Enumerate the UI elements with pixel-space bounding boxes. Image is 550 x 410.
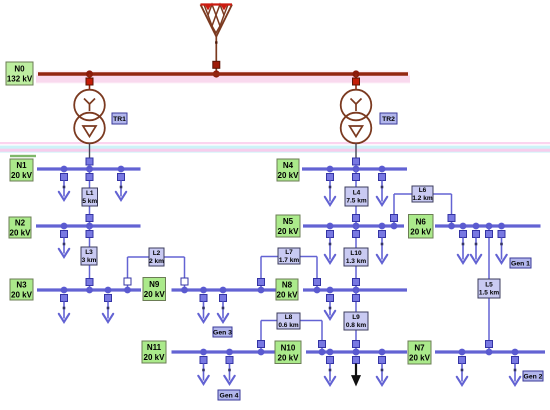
svg-text:N3: N3 [16, 281, 27, 290]
svg-text:132 kV: 132 kV [7, 75, 33, 84]
svg-text:20 kV: 20 kV [278, 227, 300, 236]
svg-text:1.2 km: 1.2 km [412, 195, 432, 202]
svg-text:1.5 km: 1.5 km [479, 290, 499, 297]
svg-text:5 km: 5 km [82, 198, 97, 205]
svg-text:0.6 km: 0.6 km [278, 322, 298, 329]
svg-text:L2: L2 [153, 250, 161, 257]
svg-text:L7: L7 [285, 249, 293, 256]
svg-text:N6: N6 [416, 217, 427, 226]
svg-text:20 kV: 20 kV [144, 353, 166, 362]
svg-text:Gen 2: Gen 2 [524, 374, 543, 381]
svg-text:20 kV: 20 kV [410, 227, 432, 236]
svg-text:L6: L6 [419, 187, 427, 194]
svg-text:Gen 1: Gen 1 [511, 261, 530, 268]
svg-text:20 kV: 20 kV [144, 290, 166, 299]
svg-text:N2: N2 [15, 219, 26, 228]
svg-text:N1: N1 [16, 161, 27, 170]
svg-text:Gen 4: Gen 4 [220, 393, 239, 400]
svg-text:TR2: TR2 [382, 116, 395, 123]
svg-text:L10: L10 [350, 250, 362, 257]
svg-text:L5: L5 [485, 282, 493, 289]
svg-text:L1: L1 [86, 190, 94, 197]
svg-text:L8: L8 [285, 314, 293, 321]
svg-text:20 kV: 20 kV [277, 291, 299, 300]
svg-text:N10: N10 [281, 343, 296, 352]
svg-text:Gen 3: Gen 3 [213, 330, 232, 337]
svg-text:20 kV: 20 kV [10, 229, 32, 238]
svg-text:0.8 km: 0.8 km [346, 322, 366, 329]
svg-text:L9: L9 [352, 314, 360, 321]
svg-text:20 kV: 20 kV [409, 354, 431, 363]
svg-text:N4: N4 [283, 161, 294, 170]
svg-text:N11: N11 [147, 343, 162, 352]
svg-text:N7: N7 [414, 344, 425, 353]
svg-text:TR1: TR1 [113, 116, 126, 123]
svg-text:1.3 km: 1.3 km [346, 258, 366, 265]
svg-text:3 km: 3 km [82, 257, 97, 264]
svg-text:20 kV: 20 kV [11, 291, 33, 300]
svg-text:N9: N9 [149, 280, 160, 289]
svg-text:7.5 km: 7.5 km [346, 198, 366, 205]
svg-text:N5: N5 [283, 217, 294, 226]
svg-text:N8: N8 [282, 281, 293, 290]
svg-text:N0: N0 [14, 65, 25, 74]
svg-text:20 kV: 20 kV [11, 171, 33, 180]
svg-text:20 kV: 20 kV [278, 353, 300, 362]
svg-text:L4: L4 [353, 190, 361, 197]
svg-text:1.7 km: 1.7 km [279, 257, 299, 264]
svg-text:20 kV: 20 kV [278, 171, 300, 180]
svg-text:2 km: 2 km [149, 258, 164, 265]
svg-text:L3: L3 [85, 249, 93, 256]
